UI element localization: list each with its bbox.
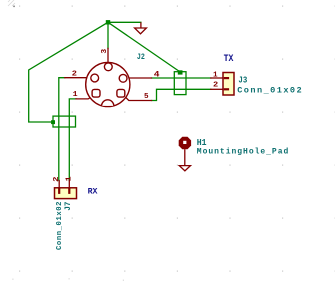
svg-text:2: 2 bbox=[53, 176, 61, 181]
svg-text:J2: J2 bbox=[137, 52, 145, 62]
svg-text:J3: J3 bbox=[238, 75, 247, 85]
svg-text:1: 1 bbox=[73, 91, 79, 99]
svg-text:Conn_01x02: Conn_01x02 bbox=[237, 86, 302, 96]
svg-text:1: 1 bbox=[65, 176, 73, 182]
svg-text:MountingHole_Pad: MountingHole_Pad bbox=[197, 147, 289, 156]
svg-text:5: 5 bbox=[144, 93, 149, 101]
svg-text:4: 4 bbox=[154, 70, 160, 79]
svg-text:RX: RX bbox=[88, 186, 99, 196]
svg-text:2: 2 bbox=[213, 82, 218, 90]
svg-text:1: 1 bbox=[213, 72, 218, 80]
svg-text:Conn_01x02: Conn_01x02 bbox=[56, 202, 64, 251]
svg-text:2: 2 bbox=[72, 70, 77, 78]
svg-text:TX: TX bbox=[224, 54, 235, 65]
svg-text:J7: J7 bbox=[64, 202, 73, 211]
svg-text:3: 3 bbox=[101, 49, 109, 54]
